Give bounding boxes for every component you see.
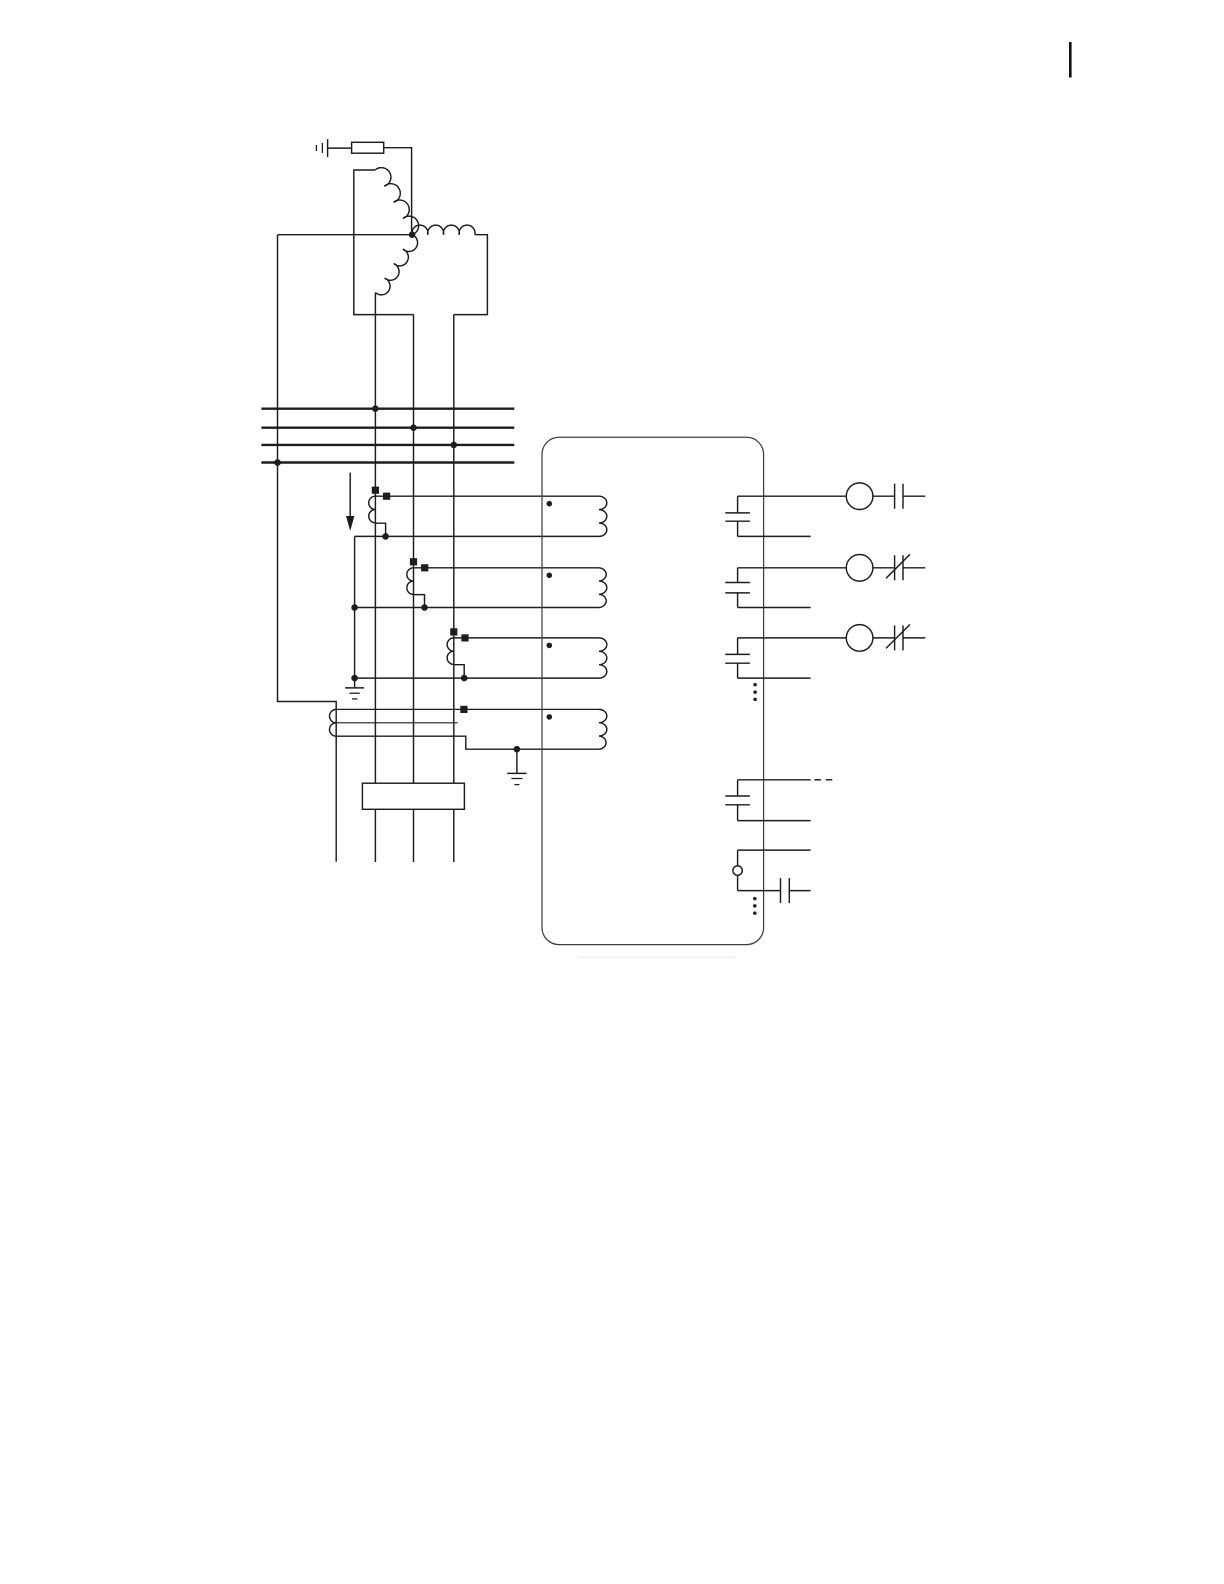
arrow (load direction) xyxy=(346,473,354,531)
CT4 polarity square (neutral CT lead) xyxy=(460,706,467,713)
transformer winding W1 (upper-left) xyxy=(375,168,418,235)
ellipsis (more outputs) xyxy=(753,683,757,701)
wire life contact bottom with capacitor xyxy=(738,890,781,892)
wire W1 end to left outline xyxy=(354,170,414,315)
node CT1 bottom xyxy=(382,533,389,540)
signal circle K2 xyxy=(846,555,873,582)
generator / machine box xyxy=(362,783,464,809)
signal circle K1 xyxy=(846,483,873,510)
wire CT4 middle tap xyxy=(336,722,458,724)
CT3 polarity square (secondary lead) xyxy=(461,634,468,641)
busbar 3 xyxy=(261,444,514,446)
capacitor (life contact output) xyxy=(781,878,790,903)
CT4 secondary winding (neutral CT) xyxy=(330,709,337,736)
wire contact 3 out xyxy=(903,637,925,639)
wire CT3 bottom lead to relay xyxy=(355,677,599,679)
binary output 2: wire to signal circle xyxy=(738,567,847,569)
wire contact 1 out xyxy=(903,495,925,497)
ground (CT4) xyxy=(507,773,526,784)
polarity dot U3 xyxy=(547,643,553,649)
CT1 secondary winding xyxy=(369,496,376,523)
node bus A xyxy=(372,405,379,412)
binary output 3: wire to signal circle xyxy=(738,637,847,639)
resistor R (neutral earthing resistor) xyxy=(352,142,384,153)
life contact: top wire xyxy=(738,849,811,851)
binary output 1: wire to signal circle xyxy=(738,495,847,497)
node CT2 bottom xyxy=(421,604,428,611)
wire CT2 top lead to relay xyxy=(414,567,600,569)
wire CT1 bottom lead to relay xyxy=(355,535,599,537)
wire circle to contact 3 xyxy=(873,637,895,639)
busbar 1 xyxy=(261,408,514,410)
wire CT secondary common xyxy=(354,536,356,688)
transformer winding W2 (lower-left) xyxy=(375,235,417,295)
wire CT3 winding to bottom lead xyxy=(454,665,464,678)
node common CT3 xyxy=(351,675,358,682)
faint caption remnant xyxy=(578,956,735,958)
wire CT1 winding to bottom lead xyxy=(375,523,385,536)
binary output 1 coupling capacitor xyxy=(725,496,750,536)
relay input transformer U3 xyxy=(599,638,607,678)
CT2 polarity square (secondary lead) xyxy=(421,564,428,571)
polarity dot U1 xyxy=(547,501,553,507)
binary output 2 coupling capacitor xyxy=(725,568,750,608)
CT3 polarity square (primary) xyxy=(450,628,457,635)
wire phase A down xyxy=(374,293,376,784)
wire binary output 2 bottom xyxy=(738,607,811,609)
wire capacitor out xyxy=(789,890,810,892)
ellipsis (more contacts) xyxy=(753,897,757,915)
busbar 2 xyxy=(261,427,514,429)
wire left feeder down and to neutral CT xyxy=(278,235,337,862)
CT2 secondary winding xyxy=(407,568,414,595)
node bus B xyxy=(410,424,417,431)
node CT4 ground tap xyxy=(514,746,521,753)
ground (CT common) xyxy=(345,688,364,699)
wire resistor to star point xyxy=(384,148,412,235)
ground (neutral earthing, left-facing) xyxy=(316,139,327,157)
wire ground to resistor xyxy=(328,147,352,149)
node star point xyxy=(409,231,416,238)
contact 2 (crossed) xyxy=(886,554,910,580)
wire binary input bottom xyxy=(738,820,811,822)
polarity dot U2 xyxy=(547,573,553,579)
contact 3 (crossed) xyxy=(886,624,910,650)
relay input transformer U4 xyxy=(599,709,607,749)
wire phase C down xyxy=(453,315,455,784)
wire CT2 winding to bottom lead xyxy=(414,595,425,608)
wire CT2 bottom lead to relay xyxy=(355,607,599,609)
CT3 secondary winding xyxy=(447,638,454,665)
wire CT3 top lead to relay xyxy=(454,637,599,639)
relay input transformer U2 xyxy=(599,568,607,608)
signal circle K3 xyxy=(846,625,873,652)
CT2 polarity square (primary) xyxy=(410,558,417,565)
node bus C xyxy=(451,442,458,449)
contact 1 (normally open) xyxy=(895,484,903,509)
wire CT1 top lead to relay xyxy=(375,495,599,497)
binary input coupling capacitor xyxy=(725,780,750,821)
wire star point to left feeder xyxy=(278,234,413,236)
wire binary output 1 bottom xyxy=(738,535,811,537)
page header rule fragment xyxy=(1069,42,1072,78)
wire circle to contact 2 xyxy=(873,567,895,569)
CT1 polarity square (primary) xyxy=(372,487,379,494)
wire W3 end to right outline xyxy=(454,235,488,315)
transformer winding W3 (right) xyxy=(412,225,475,235)
wire CT4 top lead to relay xyxy=(336,708,599,710)
busbar 4 xyxy=(261,461,514,463)
node bus N xyxy=(274,459,281,466)
wire circle to contact 1 xyxy=(873,495,895,497)
wire to ground xyxy=(516,749,518,773)
relay case (rounded rectangle) xyxy=(542,437,764,944)
wire phase B down xyxy=(413,315,415,784)
wire CT4 bottom lead to relay xyxy=(336,736,599,749)
CT1 polarity square (secondary lead) xyxy=(383,493,390,500)
binary output 3 coupling capacitor xyxy=(725,638,750,678)
wire binary output 3 bottom xyxy=(738,677,811,679)
polarity dot U4 xyxy=(547,714,553,720)
wire contact 2 out xyxy=(903,567,925,569)
node common CT2 xyxy=(351,604,358,611)
node CT3 bottom xyxy=(461,675,468,682)
life contact coil circle xyxy=(733,850,742,891)
binary input: top wire with dashed continuation xyxy=(738,779,811,781)
relay input transformer U1 xyxy=(599,496,607,536)
